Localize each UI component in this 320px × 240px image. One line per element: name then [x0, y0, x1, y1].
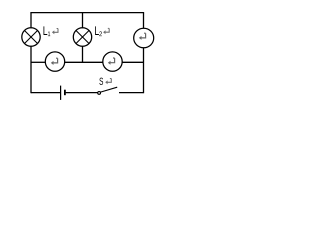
return mark inside meter A1 — [51, 58, 58, 65]
return mark after S — [105, 79, 111, 85]
switch lever — [101, 87, 118, 92]
wire middle right segment — [122, 61, 143, 63]
return mark inside meter A2 — [108, 58, 115, 65]
lamp L2 — [73, 28, 91, 46]
wire middle left segment — [31, 61, 46, 63]
wire L1 branch upper stub — [30, 13, 32, 29]
return mark after L2 — [103, 28, 109, 34]
meter A1 (middle left) — [45, 52, 64, 71]
label L2 — [95, 26, 99, 35]
lamp L1 — [22, 28, 40, 46]
return mark after L1 — [52, 29, 58, 35]
wire L1 branch lower (to bottom-left corner) — [30, 46, 32, 93]
switch pivot — [98, 92, 101, 95]
wire L2 branch upper stub — [82, 13, 84, 29]
wire bottom left segment — [31, 92, 60, 94]
wire top — [30, 12, 144, 14]
battery long plate — [60, 86, 62, 100]
label L1 — [43, 26, 47, 35]
wire L2 branch lower stub (to middle wire) — [82, 46, 84, 63]
wire switch to bottom-right corner — [119, 92, 144, 94]
label S — [99, 78, 103, 85]
wire battery to switch — [66, 92, 98, 94]
wire right branch lower (to bottom-right corner) — [143, 48, 145, 93]
meter A2 (middle right) — [103, 52, 122, 71]
return mark inside meter A3 — [139, 33, 146, 40]
battery short plate — [64, 90, 66, 96]
meter A3 (top right) — [134, 28, 154, 48]
wire middle center segment — [65, 61, 104, 63]
wire right branch upper stub — [143, 13, 145, 29]
